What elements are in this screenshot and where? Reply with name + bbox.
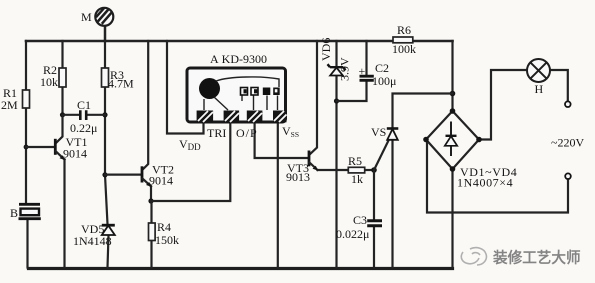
wire thyristor cathode to ground bus: [391, 140, 393, 268]
svg-text:C1: C1: [77, 98, 91, 112]
svg-text:C3: C3: [353, 213, 367, 227]
svg-text:1N4148: 1N4148: [73, 234, 112, 248]
wire bridge negative drop to ground bus: [451, 169, 453, 268]
node C1 left junction: [60, 112, 65, 117]
node VT2 base junction: [102, 172, 107, 177]
svg-text:10k: 10k: [40, 75, 58, 89]
capacitor C2: [360, 76, 374, 80]
svg-text:9014: 9014: [149, 174, 173, 188]
svg-text:VD6: VD6: [319, 38, 333, 61]
IC chip blob: [199, 78, 220, 99]
svg-text:TRI: TRI: [207, 126, 226, 140]
wire lamp to mains upper terminal: [550, 70, 568, 101]
lamp H: [527, 59, 550, 82]
resistor R3: [102, 68, 109, 87]
wire bridge left AC arm to mains lower terminal: [427, 141, 568, 213]
svg-text:0.22μ: 0.22μ: [70, 121, 97, 135]
capacitor C3: [367, 221, 382, 226]
svg-text:2M: 2M: [1, 98, 18, 112]
wire C1 left lead: [63, 114, 80, 116]
node base of VT1 junction: [24, 145, 29, 150]
diode VD5: [102, 225, 115, 235]
wire VT2 base: [105, 174, 141, 176]
svg-text:VSS: VSS: [282, 124, 299, 139]
wire bus corner down to bridge positive: [451, 41, 453, 111]
wire VT2 collector riser to bus: [143, 41, 149, 170]
svg-text:R5: R5: [348, 154, 362, 168]
resistor R6: [393, 37, 413, 43]
node C1 right junction: [102, 112, 107, 117]
svg-text:~220V: ~220V: [551, 136, 584, 150]
wire R5 output lead: [365, 169, 374, 171]
thyristor VS: [387, 129, 399, 140]
svg-text:9013: 9013: [286, 170, 310, 184]
wire O/P link from IC pad to VT3 base: [255, 122, 309, 158]
buzzer B: [19, 204, 41, 218]
IC bond traces: [204, 77, 279, 110]
transistor VT1: [55, 139, 65, 160]
wire TRI link from junction to IC pad: [151, 122, 230, 201]
wire VT3 emitter lead to R5: [318, 169, 349, 171]
capacitor C1: [80, 110, 86, 120]
wire VT1 emitter drop to ground bus: [63, 160, 65, 268]
zener diode VD6: [328, 64, 346, 75]
wire R2 branch from bus to C1 node: [61, 41, 63, 115]
transistor VT2: [142, 166, 151, 187]
svg-text:1k: 1k: [351, 172, 363, 186]
wire thyristor gate: [374, 141, 389, 171]
IC pin pad VDD: [197, 111, 214, 123]
terminal lower mains: [565, 173, 571, 179]
IC pin pad VSS: [273, 111, 287, 123]
wire VSS drop from IC pad to ground bus: [277, 122, 279, 268]
resistor R1: [23, 90, 30, 108]
wire left column R1/B branch: [26, 41, 28, 268]
wire VT1 base: [26, 146, 55, 148]
wire C2 branch from bus: [337, 41, 367, 101]
node VT2 emitter / R4 / TRI junction: [148, 198, 153, 203]
svg-text:R6: R6: [397, 23, 411, 37]
terminal upper mains: [565, 101, 571, 107]
node bridge positive junction: [450, 91, 456, 97]
svg-text:0.022μ: 0.022μ: [336, 227, 369, 241]
svg-text:H: H: [535, 82, 544, 96]
watermark logo swirl: [461, 248, 486, 265]
svg-text:4.7M: 4.7M: [108, 77, 134, 91]
svg-text:VS: VS: [371, 125, 386, 139]
node VD6 / C2 ground junction: [334, 98, 339, 103]
transistor VT3: [309, 151, 318, 171]
svg-text:O / P: O / P: [236, 126, 257, 140]
bridge inner diode symbol: [445, 122, 457, 157]
IC die pads (small squares): [241, 88, 280, 96]
IC pin pad TRI: [224, 111, 240, 123]
resistor R5: [348, 167, 364, 173]
microphone M: [95, 8, 113, 26]
IC U1 KD-9300 body: [187, 68, 286, 122]
wire top supply bus: [26, 40, 453, 43]
wire bridge right AC arm to lamp: [479, 70, 527, 140]
svg-text:1N4007×4: 1N4007×4: [457, 176, 513, 190]
svg-text:9014: 9014: [63, 147, 87, 161]
svg-text:装修工艺大师: 装修工艺大师: [492, 249, 581, 267]
svg-text:C2: C2: [375, 61, 389, 75]
svg-text:A KD-9300: A KD-9300: [210, 52, 267, 66]
wire VD6 zener branch from bus: [335, 41, 337, 268]
wire VDD rail from bus to IC pad 1: [167, 41, 204, 134]
wire C1 right lead: [87, 114, 105, 116]
svg-text:3.9V: 3.9V: [338, 57, 352, 81]
wire VT2 emitter drop: [150, 186, 152, 201]
wire thyristor anode link to bridge positive: [393, 94, 453, 129]
svg-text:150k: 150k: [155, 233, 179, 247]
resistor R2: [59, 68, 66, 87]
svg-text:R4: R4: [157, 220, 171, 234]
wire VT1 collector riser: [56, 115, 63, 143]
resistor R4: [149, 223, 156, 241]
svg-text:+: +: [359, 64, 366, 78]
svg-text:100μ: 100μ: [372, 74, 396, 88]
wire R3/VD5 column from bus to ground bus: [105, 41, 109, 268]
svg-text:100k: 100k: [392, 42, 416, 56]
wire microphone stem: [104, 27, 107, 42]
wire VT3 collector riser to bus: [310, 41, 317, 154]
svg-text:B: B: [10, 206, 18, 220]
wire C3 branch to ground bus: [373, 170, 375, 268]
wire R4 branch to ground bus: [150, 201, 152, 268]
bridge rectifier VD1-VD4 diamond: [423, 108, 482, 172]
IC pin pad O/P: [247, 111, 263, 123]
node R5 / C3 / gate junction: [371, 167, 377, 173]
wire bottom ground bus: [29, 267, 453, 270]
svg-text:VDD: VDD: [179, 137, 201, 152]
svg-text:M: M: [81, 10, 92, 24]
